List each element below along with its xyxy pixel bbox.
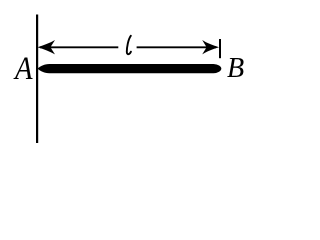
svg-text:A: A — [13, 49, 32, 86]
svg-text:B: B — [227, 52, 244, 83]
